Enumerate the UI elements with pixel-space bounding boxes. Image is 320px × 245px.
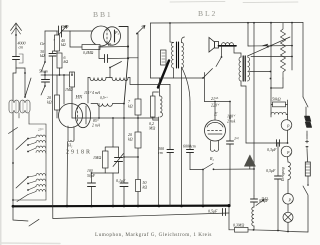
wire grid top: [45, 30, 92, 32]
svg-text:0,5μF: 0,5μF: [266, 168, 276, 174]
svg-text:1MΩ: 1MΩ: [93, 155, 101, 160]
svg-text:R₂: R₂: [209, 156, 214, 161]
wire h75: [41, 74, 72, 76]
hum wiper arrow: [248, 44, 293, 48]
lamp cross: [283, 212, 293, 232]
wire antenna tap switch: [16, 68, 31, 98]
svg-text:2918R: 2918R: [66, 150, 92, 156]
svg-text:kΩ: kΩ: [64, 59, 69, 64]
resistor 7k: [128, 99, 141, 115]
svg-text:kΩ: kΩ: [61, 42, 66, 47]
resistor 20k lower: [47, 75, 60, 118]
svg-text:0,1μF: 0,1μF: [259, 198, 269, 204]
svg-text:1ᵐᶠ: 1ᵐᶠ: [234, 136, 240, 141]
output tube V3: [205, 102, 226, 162]
main vertical x138: [128, 34, 139, 208]
coil L3: [91, 96, 125, 106]
label 100V 2mA: [227, 114, 236, 124]
svg-text:P₂: P₂: [288, 197, 293, 202]
capacitor 0,5uF bus: [208, 209, 226, 216]
svg-text:0,4MΩ: 0,4MΩ: [83, 51, 94, 56]
svg-text:kΩ: kΩ: [128, 104, 133, 109]
capacitor 0,1uF: [116, 105, 128, 208]
lamp P2: [281, 146, 292, 162]
switch S3: [41, 85, 46, 95]
switch heater: [190, 164, 254, 208]
capacitor 300cm: [158, 85, 174, 207]
tuning capacitor plates: [88, 61, 170, 104]
label 85 2mA: [92, 119, 101, 128]
svg-text:kΩ: kΩ: [128, 137, 133, 142]
coil L1a: [9, 100, 19, 113]
field coil Erregung: [281, 162, 290, 194]
wire left feeder: [12, 130, 14, 206]
svg-text:2 mA: 2 mA: [92, 124, 101, 128]
trimmer capacitor: [113, 147, 124, 173]
right bus verticals: [251, 23, 303, 101]
wire h80: [159, 78, 161, 96]
svg-text:BL2: BL2: [198, 9, 217, 18]
capacitor 0,5uF: [266, 142, 282, 231]
speaker: [209, 38, 219, 53]
bottom right line: [278, 231, 308, 233]
zigzag resistor: [270, 23, 285, 89]
capacitor 6000cm: [182, 67, 196, 170]
oscillator coil L2b: [106, 78, 130, 81]
svg-text:6000cm: 6000cm: [183, 144, 196, 149]
wire h157: [123, 156, 139, 158]
capacitor 4000cm: [13, 41, 26, 131]
svg-text:21ᵐᴬ: 21ᵐᴬ: [211, 96, 219, 101]
choke coil bottom: [252, 202, 254, 230]
capacitor 30k left: [40, 31, 56, 62]
ground bus (thick): [13, 205, 229, 208]
svg-text:HN: HN: [75, 96, 83, 101]
capacitor 0,3uF line: [246, 140, 288, 153]
speaker switch: [216, 46, 222, 67]
AF transformer T1: [161, 23, 185, 207]
voice coil: [219, 43, 237, 46]
mains line below bus with switch: [12, 51, 229, 226]
capacitor 50cm: [39, 69, 50, 87]
capacitor 100uF: [87, 169, 105, 207]
resistor 20k x139: [128, 132, 141, 148]
svg-text:Erregung: Erregung: [281, 167, 285, 182]
svg-text:cm: cm: [19, 45, 24, 50]
wire x64 to bus: [63, 74, 68, 207]
tube BB1: [91, 26, 121, 47]
svg-text:cm: cm: [158, 150, 163, 155]
svg-text:50cm: 50cm: [39, 69, 48, 74]
wire h118: [72, 104, 158, 148]
resistor below 40k: [57, 31, 68, 75]
svg-text:D: D: [107, 42, 112, 47]
resistor 0,4M: [70, 31, 129, 56]
svg-text:MΩ: MΩ: [148, 126, 155, 131]
band switch coil block 1: [9, 124, 47, 154]
lamp P3: [283, 194, 294, 213]
svg-text:kΩ: kΩ: [143, 185, 148, 190]
RC parallel wires: [105, 147, 118, 207]
resistor 40k: [40, 35, 66, 51]
label BL2: [198, 9, 217, 18]
resistor 1M anode: [93, 151, 108, 168]
switch arrow top: [136, 26, 145, 35]
svg-text:115ⱽ 4 mA: 115ⱽ 4 mA: [84, 91, 101, 95]
svg-text:0,5ᵐᴬ: 0,5ᵐᴬ: [100, 96, 108, 101]
svg-text:25ᵘᵘ: 25ᵘᵘ: [38, 128, 44, 132]
capacitor 0,1uF branch: [251, 196, 270, 204]
label 115V 4mA: [75, 91, 101, 101]
grid choke with resistor: [148, 92, 163, 207]
anode switch: [151, 69, 213, 102]
svg-text:Lumophon, Markgraf G, Gleic: Lumophon, Markgraf G, Gleichstrom, 1 Kre…: [95, 231, 212, 238]
svg-text:E: E: [213, 112, 218, 118]
tube 2918R: [59, 103, 91, 147]
grid capacitor: [99, 46, 129, 63]
caption: [95, 231, 212, 238]
svg-text:P₃: P₃: [286, 124, 291, 129]
wire h101 plate: [205, 96, 231, 118]
svg-text:50kΩ: 50kΩ: [272, 97, 281, 102]
switch arm mid: [109, 62, 121, 78]
antenna: [11, 23, 22, 56]
svg-text:2 mA: 2 mA: [227, 119, 236, 124]
svg-text:500: 500: [62, 24, 69, 29]
plate lead BB1: [119, 27, 128, 105]
output transformer T2: [234, 37, 290, 143]
svg-text:220ⱽ: 220ⱽ: [211, 103, 220, 108]
oscillator coil L2a: [88, 78, 106, 81]
resistor 50k parallel coil: [271, 97, 288, 118]
band switch coil block 2: [12, 154, 46, 202]
svg-text:P₃: P₃: [114, 30, 119, 35]
top bus: [151, 22, 304, 78]
svg-text:P₄: P₄: [286, 150, 291, 155]
label 2918R: [66, 150, 92, 156]
mains right vertical: [303, 97, 312, 232]
pot 1k label: [256, 196, 268, 206]
svg-text:kΩ: kΩ: [47, 100, 52, 105]
svg-text:85ⱽ: 85ⱽ: [93, 119, 100, 123]
resistor 0,3M bottom: [229, 213, 278, 232]
coil L1b: [19, 100, 30, 124]
variable capacitor 500: [54, 24, 69, 40]
B+ vertical from bus: [248, 22, 255, 196]
tube BB1 label: [93, 10, 113, 19]
svg-text:BB1: BB1: [93, 10, 113, 19]
mains plug arrow: [244, 155, 255, 169]
svg-text:H₂: H₂: [67, 143, 73, 148]
svg-text:Gr: Gr: [40, 41, 45, 46]
capacitor 300cm anode: [227, 102, 240, 208]
resistor 50 bottom x139: [136, 180, 148, 192]
resistor 1M right: [65, 72, 75, 118]
switch S2: [41, 61, 46, 75]
svg-text:kΩ: kΩ: [40, 53, 45, 58]
svg-text:0,3μF: 0,3μF: [267, 147, 277, 153]
lamp P1: [281, 117, 292, 143]
